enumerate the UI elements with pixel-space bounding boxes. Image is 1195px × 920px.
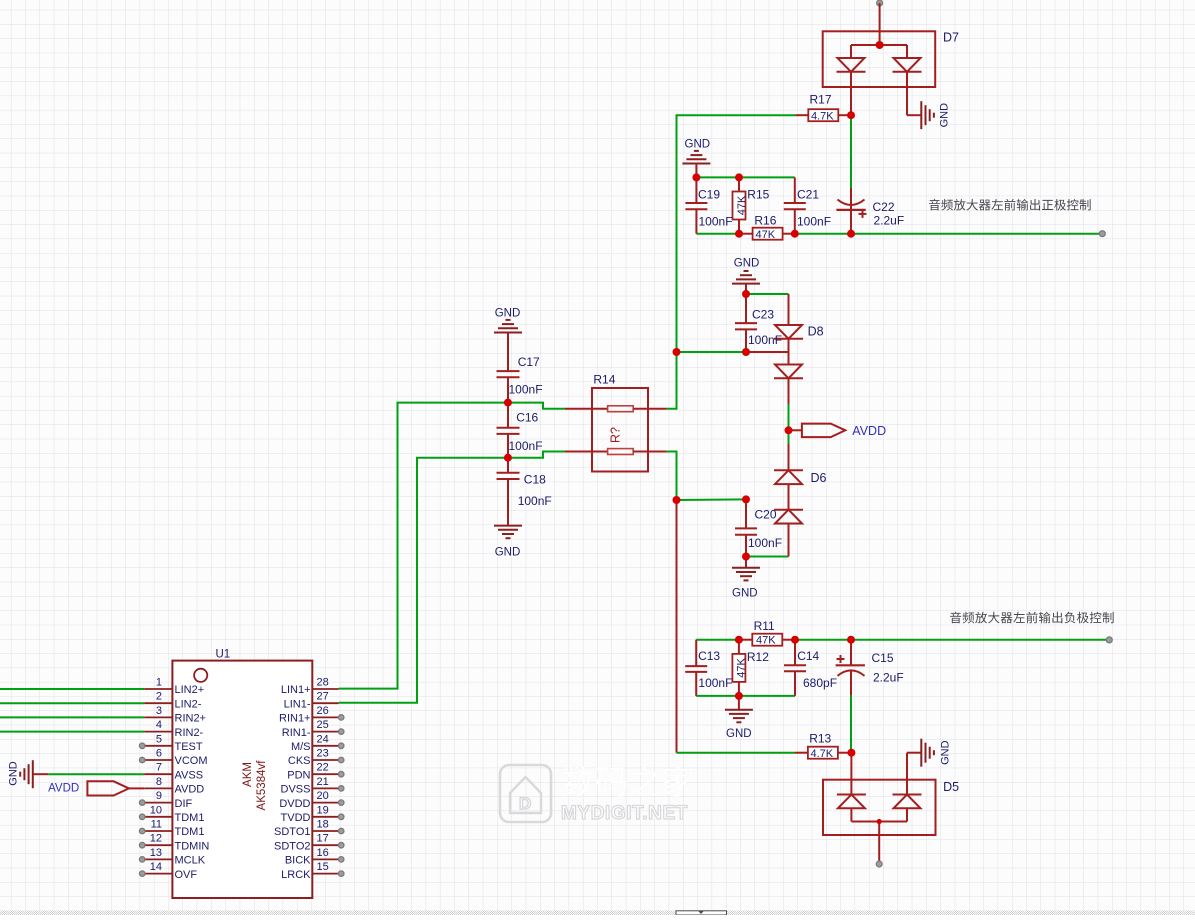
svg-text:GND: GND <box>734 258 760 270</box>
svg-text:100nF: 100nF <box>698 676 732 690</box>
svg-text:R12: R12 <box>747 650 769 664</box>
svg-text:100nF: 100nF <box>509 383 543 397</box>
svg-text:2: 2 <box>156 691 162 703</box>
svg-text:GND: GND <box>732 588 758 600</box>
svg-text:C23: C23 <box>752 308 774 322</box>
svg-text:12: 12 <box>150 833 162 845</box>
svg-text:47K: 47K <box>736 195 748 215</box>
svg-text:23: 23 <box>317 748 329 760</box>
svg-text:D5: D5 <box>943 780 959 794</box>
svg-text:14: 14 <box>150 861 162 873</box>
svg-text:VCOM: VCOM <box>175 755 208 767</box>
svg-text:R14: R14 <box>593 373 615 387</box>
svg-text:RIN1+: RIN1+ <box>279 713 311 725</box>
svg-text:4.7K: 4.7K <box>811 111 834 123</box>
svg-text:C20: C20 <box>755 508 777 522</box>
svg-text:20: 20 <box>317 790 329 802</box>
svg-text:RIN2+: RIN2+ <box>175 713 207 725</box>
svg-text:GND: GND <box>8 761 20 786</box>
svg-text:100nF: 100nF <box>748 536 782 550</box>
svg-text:C21: C21 <box>797 188 819 202</box>
svg-text:LIN2-: LIN2- <box>175 698 202 710</box>
svg-text:C19: C19 <box>698 188 720 202</box>
svg-text:C14: C14 <box>797 649 819 663</box>
svg-text:C16: C16 <box>516 411 538 425</box>
svg-text:R15: R15 <box>747 188 769 202</box>
svg-text:TDM1: TDM1 <box>175 812 205 824</box>
svg-text:4: 4 <box>156 719 162 731</box>
svg-text:SDTO2: SDTO2 <box>274 840 310 852</box>
svg-text:GND: GND <box>939 103 951 128</box>
svg-text:4.7K: 4.7K <box>811 748 834 760</box>
svg-text:AVDD: AVDD <box>852 424 886 438</box>
svg-text:LIN1-: LIN1- <box>284 698 311 710</box>
svg-text:22: 22 <box>317 762 329 774</box>
svg-text:MCLK: MCLK <box>175 855 206 867</box>
svg-text:AK5384vf: AK5384vf <box>256 760 268 811</box>
svg-text:1: 1 <box>156 677 162 689</box>
svg-text:LIN1+: LIN1+ <box>281 684 311 696</box>
svg-text:D: D <box>519 794 531 813</box>
svg-text:10: 10 <box>150 804 162 816</box>
svg-text:C22: C22 <box>873 200 895 214</box>
svg-text:PDN: PDN <box>287 769 310 781</box>
svg-text:TDM1: TDM1 <box>175 826 205 838</box>
svg-text:C18: C18 <box>524 473 546 487</box>
svg-text:R11: R11 <box>754 619 775 633</box>
svg-text:R17: R17 <box>810 93 832 107</box>
svg-text:25: 25 <box>317 719 329 731</box>
svg-text:GND: GND <box>726 728 752 740</box>
svg-text:19: 19 <box>317 804 329 816</box>
svg-text:AVSS: AVSS <box>175 769 204 781</box>
svg-text:18: 18 <box>317 819 329 831</box>
svg-text:AVDD: AVDD <box>175 784 205 796</box>
svg-text:SDTO1: SDTO1 <box>274 826 310 838</box>
svg-text:2.2uF: 2.2uF <box>874 214 905 228</box>
svg-text:GND: GND <box>685 139 711 151</box>
svg-text:GND: GND <box>495 308 521 320</box>
svg-text:C13: C13 <box>698 649 720 663</box>
svg-text:D8: D8 <box>808 325 824 339</box>
svg-text:M/S: M/S <box>291 741 311 753</box>
svg-text:8: 8 <box>156 776 162 788</box>
svg-text:DIF: DIF <box>175 798 193 810</box>
svg-text:C17: C17 <box>518 355 540 369</box>
svg-text:16: 16 <box>317 847 329 859</box>
svg-text:D6: D6 <box>811 471 827 485</box>
svg-text:AVDD: AVDD <box>48 783 79 795</box>
svg-text:LIN2+: LIN2+ <box>175 684 205 696</box>
svg-text:24: 24 <box>317 733 329 745</box>
svg-text:DVSS: DVSS <box>281 784 311 796</box>
svg-text:OVF: OVF <box>175 869 198 881</box>
svg-text:R16: R16 <box>754 214 776 228</box>
svg-text:6: 6 <box>156 748 162 760</box>
svg-text:47K: 47K <box>756 635 776 647</box>
svg-text:11: 11 <box>151 819 162 831</box>
svg-text:MYDIGIT.NET: MYDIGIT.NET <box>561 803 688 824</box>
svg-text:GND: GND <box>940 740 952 765</box>
svg-text:AKM: AKM <box>242 762 254 787</box>
svg-text:680pF: 680pF <box>803 676 837 690</box>
svg-text:BICK: BICK <box>285 855 311 867</box>
svg-text:DVDD: DVDD <box>279 798 310 810</box>
svg-text:U1: U1 <box>216 649 231 661</box>
svg-text:9: 9 <box>156 790 162 802</box>
svg-text:47K: 47K <box>736 658 748 678</box>
svg-text:3: 3 <box>156 705 162 717</box>
svg-text:28: 28 <box>317 677 329 689</box>
svg-text:2.2uF: 2.2uF <box>873 671 904 685</box>
svg-text:R13: R13 <box>809 732 831 746</box>
svg-text:100nF: 100nF <box>797 215 831 229</box>
svg-text:100nF: 100nF <box>509 439 543 453</box>
svg-text:TEST: TEST <box>175 741 203 753</box>
svg-text:GND: GND <box>495 547 521 559</box>
svg-text:13: 13 <box>150 847 162 859</box>
svg-text:R?: R? <box>609 427 623 443</box>
svg-text:RIN1-: RIN1- <box>282 727 311 739</box>
svg-text:100nF: 100nF <box>518 494 552 508</box>
svg-text:LRCK: LRCK <box>281 869 311 881</box>
svg-text:15: 15 <box>317 861 329 873</box>
svg-text:D7: D7 <box>943 31 959 45</box>
svg-text:TVDD: TVDD <box>281 812 311 824</box>
svg-text:100nF: 100nF <box>748 333 782 347</box>
svg-text:21: 21 <box>317 776 329 788</box>
svg-text:RIN2-: RIN2- <box>175 727 204 739</box>
svg-text:17: 17 <box>317 833 329 845</box>
svg-text:26: 26 <box>317 705 329 717</box>
svg-text:C15: C15 <box>872 651 894 665</box>
svg-text:100nF: 100nF <box>699 215 733 229</box>
svg-text:7: 7 <box>156 762 162 774</box>
svg-text:TDMIN: TDMIN <box>175 840 210 852</box>
svg-text:27: 27 <box>317 691 329 703</box>
svg-text:5: 5 <box>156 733 162 745</box>
svg-text:CKS: CKS <box>288 755 311 767</box>
svg-text:47K: 47K <box>756 229 776 241</box>
